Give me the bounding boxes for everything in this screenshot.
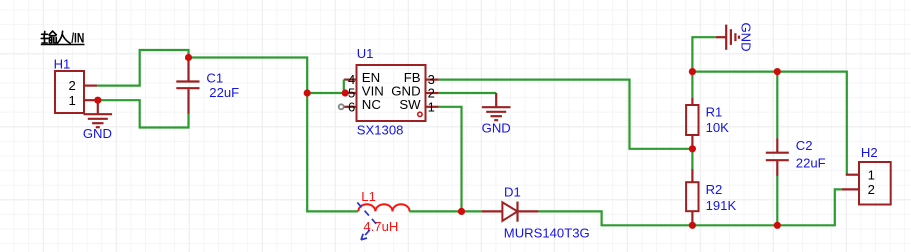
- svg-text:VIN: VIN: [362, 83, 384, 98]
- svg-text:H1: H1: [54, 56, 71, 71]
- svg-text:R1: R1: [706, 104, 723, 119]
- svg-text:6: 6: [348, 99, 355, 114]
- svg-text:1: 1: [69, 93, 76, 108]
- svg-text:GND: GND: [391, 83, 420, 98]
- svg-text:5: 5: [348, 86, 355, 101]
- svg-text:D1: D1: [504, 184, 521, 199]
- svg-text:H2: H2: [861, 145, 878, 160]
- svg-text:C1: C1: [206, 71, 223, 86]
- svg-text:2: 2: [69, 78, 76, 93]
- svg-text:U1: U1: [357, 46, 374, 61]
- svg-text:MURS140T3G: MURS140T3G: [504, 225, 590, 240]
- svg-text:22uF: 22uF: [796, 155, 826, 170]
- svg-text:GND: GND: [482, 120, 511, 135]
- svg-text:SX1308: SX1308: [357, 123, 404, 138]
- svg-text:NC: NC: [362, 97, 382, 112]
- svg-text:SW: SW: [399, 97, 421, 112]
- svg-text:22uF: 22uF: [209, 85, 239, 100]
- svg-text:C2: C2: [796, 138, 813, 153]
- svg-text:191K: 191K: [706, 198, 737, 213]
- svg-text:/IN: /IN: [71, 30, 84, 46]
- svg-text:L1: L1: [361, 189, 376, 204]
- svg-text:2: 2: [868, 182, 875, 197]
- svg-text:1: 1: [868, 167, 875, 182]
- svg-text:GND: GND: [739, 23, 754, 52]
- svg-text:10K: 10K: [706, 120, 730, 135]
- svg-text:1: 1: [428, 99, 435, 114]
- svg-text:GND: GND: [83, 126, 112, 141]
- svg-text:2: 2: [428, 86, 435, 101]
- svg-text:R2: R2: [706, 182, 723, 197]
